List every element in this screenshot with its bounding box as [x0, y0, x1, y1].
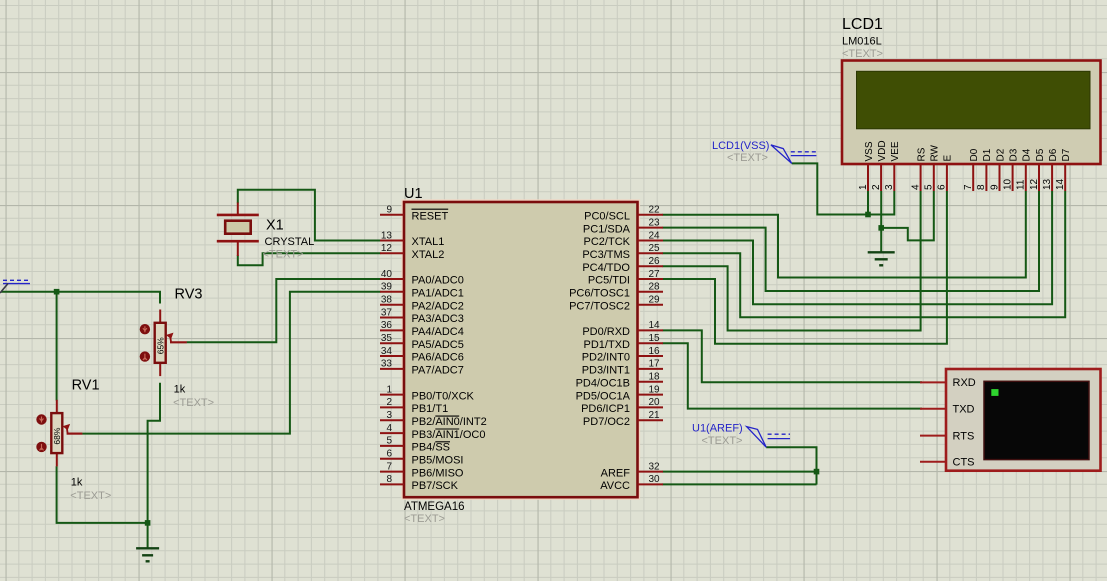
- node junction AREF: [814, 469, 820, 475]
- svg-text:PC1/SDA: PC1/SDA: [583, 223, 631, 235]
- svg-text:RV3: RV3: [175, 287, 203, 303]
- node junction ground rail: [145, 520, 151, 526]
- svg-text:3: 3: [386, 410, 392, 421]
- U1 left pin 2 (PB1/T1): [380, 397, 448, 415]
- svg-text:PD2/INT0: PD2/INT0: [582, 352, 630, 364]
- svg-text:65%: 65%: [156, 337, 166, 354]
- svg-text:PD0/RXD: PD0/RXD: [582, 326, 630, 338]
- svg-text:4: 4: [910, 184, 921, 190]
- LCD1 pin 5 (RW): [924, 144, 941, 191]
- svg-text:29: 29: [649, 295, 661, 306]
- svg-text:9: 9: [386, 205, 392, 216]
- svg-text:D6: D6: [1048, 148, 1059, 161]
- svg-text:PA7/ADC7: PA7/ADC7: [412, 365, 464, 377]
- svg-text:<TEXT>: <TEXT>: [727, 152, 768, 164]
- virtual terminal body: [946, 369, 1101, 471]
- wire LCD1(VSS) terminal to LCD VSS/VEE: [792, 163, 895, 214]
- svg-text:12: 12: [381, 243, 393, 254]
- LCD1 pin 14 (D7): [1055, 148, 1072, 191]
- U1 left pin 33 (PA7/ADC7): [380, 359, 464, 377]
- LCD1 pin 4 (RS): [910, 147, 927, 191]
- LCD1 pin 8 (D1): [976, 148, 993, 191]
- wire PD0/RXD to terminal RXD: [663, 330, 923, 382]
- U1 right pin 22 (PC0/SCL): [584, 205, 663, 223]
- LCD1 pin 9 (D2): [989, 148, 1006, 191]
- svg-text:11: 11: [1016, 179, 1027, 190]
- svg-text:RXD: RXD: [953, 377, 976, 389]
- svg-text:TXD: TXD: [953, 404, 975, 416]
- wire U1 AVCC pin 30: [663, 483, 817, 485]
- svg-text:PD4/OC1B: PD4/OC1B: [576, 377, 630, 389]
- svg-text:28: 28: [649, 282, 661, 293]
- svg-text:38: 38: [381, 295, 393, 306]
- svg-text:34: 34: [381, 346, 393, 357]
- svg-text:13: 13: [1042, 178, 1053, 190]
- crystal X1 pin stubs: [237, 203, 239, 215]
- U1 left pin 38 (PA2/ADC2): [380, 295, 464, 313]
- U1 left pin 12 (XTAL2): [380, 243, 444, 261]
- svg-text:<TEXT>: <TEXT>: [263, 249, 304, 261]
- svg-text:PB0/T0/XCK: PB0/T0/XCK: [412, 390, 475, 402]
- svg-text:68%: 68%: [52, 427, 62, 444]
- net label U1(AREF): [692, 423, 790, 448]
- svg-text:15: 15: [649, 333, 661, 344]
- U1 left pin 4 (PB3/AIN1/OC0): [380, 423, 485, 441]
- svg-text:RW: RW: [930, 144, 941, 161]
- wire jog LCD VDD to RW: [881, 191, 934, 240]
- wire RV3 bottom to ground rail: [148, 383, 160, 549]
- svg-text:26: 26: [649, 256, 661, 267]
- svg-text:12: 12: [1029, 178, 1040, 190]
- U1 left pin 35 (PA5/ADC5): [380, 333, 464, 351]
- wire PD1/TXD to terminal TXD: [663, 343, 923, 408]
- U1 right pin 16 (PD2/INT0): [582, 346, 663, 364]
- svg-text:27: 27: [649, 269, 661, 280]
- wire LCD pin1 VSS drop: [867, 191, 869, 215]
- potentiometer RV3 wiper arrow: [170, 341, 187, 343]
- svg-text:X1: X1: [266, 218, 284, 234]
- svg-text:<TEXT>: <TEXT>: [70, 490, 111, 502]
- svg-text:PA1/ADC1: PA1/ADC1: [412, 288, 464, 300]
- svg-text:XTAL1: XTAL1: [412, 236, 445, 248]
- svg-text:LM016L: LM016L: [842, 36, 882, 48]
- svg-text:D1: D1: [982, 148, 993, 161]
- svg-text:PD3/INT1: PD3/INT1: [582, 365, 630, 377]
- wire PC1 to LCD D5: [663, 191, 1040, 291]
- svg-text:<TEXT>: <TEXT>: [702, 435, 743, 447]
- U1 right pin 19 (PD5/OC1A): [576, 384, 663, 402]
- wire U1 AREF pin 32: [663, 471, 817, 473]
- wire LCD pin3 VEE drop: [893, 191, 895, 216]
- svg-text:PC4/TDO: PC4/TDO: [582, 262, 630, 274]
- svg-text:1: 1: [858, 184, 869, 190]
- LCD1 pin 6 (E): [937, 155, 954, 192]
- potentiometer RV1 wiper arrow: [67, 433, 83, 435]
- U1 right pin 26 (PC4/TDO): [582, 256, 663, 274]
- svg-text:8: 8: [386, 474, 392, 485]
- U1 right pin 15 (PD1/TXD): [584, 333, 663, 351]
- svg-text:XTAL2: XTAL2: [412, 249, 445, 261]
- svg-text:<TEXT>: <TEXT>: [842, 48, 883, 60]
- potentiometer RV3 pin stubs: [159, 310, 161, 323]
- svg-text:22: 22: [649, 205, 661, 216]
- U1 right pin 23 (PC1/SDA): [583, 217, 663, 235]
- svg-text:5: 5: [386, 436, 392, 447]
- U1 left pin 5 (PB4/SS): [380, 436, 450, 454]
- svg-text:LCD1: LCD1: [842, 16, 883, 33]
- svg-text:PB1/T1: PB1/T1: [412, 403, 449, 415]
- potentiometer RV1 pin stubs: [56, 400, 58, 413]
- svg-text:37: 37: [381, 307, 393, 318]
- svg-text:D7: D7: [1061, 148, 1072, 161]
- svg-text:19: 19: [649, 384, 661, 395]
- svg-text:LCD1(VSS): LCD1(VSS): [712, 140, 769, 152]
- svg-text:36: 36: [381, 320, 393, 331]
- svg-text:D2: D2: [995, 148, 1006, 161]
- power terminal (left edge): [0, 280, 30, 293]
- terminal pin RXD: [920, 377, 976, 389]
- LCD1 pin 7 (D0): [963, 148, 980, 191]
- wire PC2 to LCD D6: [663, 191, 1053, 304]
- svg-text:9: 9: [989, 184, 1000, 190]
- terminal pin TXD: [920, 404, 975, 416]
- potentiometer RV1 body: [51, 413, 62, 453]
- svg-text:RESET: RESET: [412, 211, 449, 223]
- svg-text:D3: D3: [1008, 148, 1019, 161]
- LCD1 pin 11 (D4): [1016, 148, 1033, 191]
- wire LCD pin2 VDD to ground: [880, 191, 882, 252]
- wire +V rail from power terminal to RV3 top: [1, 292, 160, 304]
- svg-text:PC6/TOSC1: PC6/TOSC1: [569, 288, 630, 300]
- terminal pin CTS: [920, 457, 975, 469]
- U1 left pin 40 (PA0/ADC0): [380, 269, 464, 287]
- svg-text:PC3/TMS: PC3/TMS: [582, 249, 630, 261]
- U1 right pin 32 (AREF): [601, 461, 663, 479]
- U1 right pin 17 (PD3/INT1): [582, 359, 663, 377]
- U1 left pin 7 (PB6/MISO): [380, 461, 464, 479]
- svg-text:E: E: [943, 155, 954, 162]
- svg-text:<TEXT>: <TEXT>: [173, 397, 214, 409]
- U1 right pin 24 (PC2/TCK): [584, 230, 663, 248]
- svg-text:16: 16: [649, 346, 661, 357]
- U1 right pin 28 (PC6/TOSC1): [569, 282, 663, 300]
- LCD1 pin 10 (D3): [1002, 148, 1019, 191]
- svg-text:D4: D4: [1022, 148, 1033, 161]
- svg-text:D5: D5: [1035, 148, 1046, 161]
- svg-text:RTS: RTS: [953, 430, 975, 442]
- svg-text:40: 40: [381, 269, 393, 280]
- svg-text:2: 2: [386, 397, 392, 408]
- svg-text:PA4/ADC4: PA4/ADC4: [412, 326, 464, 338]
- U1 left pin 3 (PB2/AIN0/INT2): [380, 410, 487, 428]
- svg-text:33: 33: [381, 359, 393, 370]
- svg-text:30: 30: [649, 474, 661, 485]
- svg-text:14: 14: [649, 320, 661, 331]
- U1 right pin 18 (PD4/OC1B): [576, 372, 663, 390]
- svg-text:8: 8: [976, 184, 987, 190]
- svg-text:7: 7: [386, 461, 392, 472]
- wire U1(AREF) terminal to AREF/AVCC: [766, 447, 816, 484]
- svg-text:2: 2: [871, 184, 882, 190]
- node junction +V rail / RV1 branch: [54, 289, 60, 295]
- svg-text:PA5/ADC5: PA5/ADC5: [412, 339, 464, 351]
- LCD1 pin 3 (VEE): [884, 141, 901, 191]
- svg-text:5: 5: [924, 184, 935, 190]
- U1 left pin 39 (PA1/ADC1): [380, 282, 464, 300]
- svg-text:4: 4: [386, 423, 392, 434]
- svg-text:VDD: VDD: [877, 140, 888, 161]
- svg-text:PC2/TCK: PC2/TCK: [584, 236, 631, 248]
- potentiometer RV1 terminal dots: [36, 414, 46, 424]
- U1 right pin 27 (PC5/TDI): [588, 269, 663, 287]
- ground near LCD: [868, 252, 895, 265]
- svg-text:U1: U1: [404, 186, 423, 202]
- node junction LCD VSS: [865, 212, 871, 218]
- U1 left pin 8 (PB7/SCK): [380, 474, 459, 492]
- svg-text:24: 24: [649, 230, 661, 241]
- svg-text:21: 21: [649, 410, 661, 421]
- svg-text:U1(AREF): U1(AREF): [692, 423, 743, 435]
- U1 right pin 14 (PD0/RXD): [582, 320, 663, 338]
- svg-text:7: 7: [963, 184, 974, 190]
- U1 left pin 36 (PA4/ADC4): [380, 320, 464, 338]
- svg-text:1k: 1k: [71, 477, 83, 489]
- potentiometer RV3 body: [155, 323, 166, 363]
- wire PC4 to LCD RS: [663, 191, 921, 331]
- svg-text:18: 18: [649, 372, 661, 383]
- svg-text:<TEXT>: <TEXT>: [404, 513, 445, 525]
- LCD1 pin 1 (VSS): [858, 141, 875, 191]
- svg-text:PA2/ADC2: PA2/ADC2: [412, 300, 464, 312]
- U1 right pin 20 (PD6/ICP1): [581, 397, 663, 415]
- svg-text:10: 10: [1002, 178, 1013, 190]
- LCD1 pin 2 (VDD): [871, 140, 888, 191]
- U1 right pin 29 (PC7/TOSC2): [569, 295, 663, 313]
- svg-text:35: 35: [381, 333, 393, 344]
- svg-text:PB3/AIN1/OC0: PB3/AIN1/OC0: [412, 429, 486, 441]
- IC U1 ATMEGA16 body: [402, 200, 639, 499]
- svg-text:D0: D0: [969, 148, 980, 161]
- U1 right pin 25 (PC3/TMS): [582, 243, 663, 261]
- svg-text:6: 6: [937, 184, 948, 190]
- svg-text:PC0/SCL: PC0/SCL: [584, 211, 630, 223]
- ground bottom left: [136, 548, 159, 561]
- svg-text:PD5/OC1A: PD5/OC1A: [576, 390, 631, 402]
- wire PC3 to LCD D7: [663, 191, 1066, 317]
- wire RV1 bottom to ground rail: [57, 466, 148, 523]
- svg-text:PD1/TXD: PD1/TXD: [584, 339, 631, 351]
- svg-text:17: 17: [649, 359, 661, 370]
- U1 left pin 37 (PA3/ADC3): [380, 307, 464, 325]
- U1 right pin 21 (PD7/OC2): [583, 410, 663, 428]
- node junction LCD VDD/RW net: [878, 225, 884, 231]
- svg-text:PB2/AIN0/INT2: PB2/AIN0/INT2: [412, 416, 487, 428]
- svg-text:AVCC: AVCC: [600, 480, 630, 492]
- wire RV3 wiper to U1 PA0 pin 40: [187, 279, 381, 342]
- svg-text:25: 25: [649, 243, 661, 254]
- svg-text:PA0/ADC0: PA0/ADC0: [412, 275, 464, 287]
- LCD1 pin 13 (D6): [1042, 148, 1059, 191]
- U1 right pin 30 (AVCC): [600, 474, 663, 492]
- terminal pin RTS: [920, 430, 974, 442]
- wire +V rail down to RV1 top: [56, 292, 58, 401]
- svg-text:RS: RS: [916, 147, 927, 161]
- svg-text:ATMEGA16: ATMEGA16: [404, 501, 465, 513]
- U1 left pin 9 (RESET): [380, 205, 448, 223]
- svg-text:PB6/MISO: PB6/MISO: [412, 467, 464, 479]
- svg-text:PA3/ADC3: PA3/ADC3: [412, 313, 464, 325]
- wire PC0 to LCD D4: [663, 191, 1026, 278]
- svg-text:3: 3: [884, 184, 895, 190]
- U1 left pin 1 (PB0/T0/XCK): [380, 384, 475, 402]
- wire crystal top to U1 XTAL1 pin 13: [238, 190, 381, 241]
- svg-text:39: 39: [381, 282, 393, 293]
- svg-text:PA6/ADC6: PA6/ADC6: [412, 352, 464, 364]
- U1 left pin 6 (PB5/MOSI): [380, 449, 463, 467]
- svg-text:VEE: VEE: [890, 141, 901, 161]
- svg-text:VSS: VSS: [864, 141, 875, 161]
- U1 left pin 34 (PA6/ADC6): [380, 346, 464, 364]
- LCD display LCD1 body: [842, 61, 1101, 165]
- svg-text:PD6/ICP1: PD6/ICP1: [581, 403, 630, 415]
- svg-text:RV1: RV1: [72, 378, 100, 394]
- crystal X1: [217, 215, 259, 241]
- svg-text:1: 1: [386, 384, 392, 395]
- svg-text:PC5/TDI: PC5/TDI: [588, 275, 630, 287]
- U1 left pin 13 (XTAL1): [380, 230, 444, 248]
- svg-text:32: 32: [649, 461, 661, 472]
- net label LCD1(VSS): [712, 140, 816, 164]
- svg-text:PD7/OC2: PD7/OC2: [583, 416, 630, 428]
- svg-text:PB4/SS: PB4/SS: [412, 442, 451, 454]
- svg-text:23: 23: [649, 217, 661, 228]
- svg-text:20: 20: [649, 397, 661, 408]
- wire crystal bottom to U1 XTAL2 pin 12: [238, 253, 381, 265]
- svg-text:CTS: CTS: [953, 457, 975, 469]
- svg-text:14: 14: [1055, 178, 1066, 190]
- svg-text:PC7/TOSC2: PC7/TOSC2: [569, 300, 630, 312]
- svg-text:6: 6: [386, 449, 392, 460]
- wire PC5 to LCD E: [663, 191, 947, 344]
- svg-text:1k: 1k: [174, 384, 186, 396]
- svg-text:PB5/MOSI: PB5/MOSI: [412, 455, 464, 467]
- LCD1 pin 12 (D5): [1029, 148, 1046, 191]
- wire RV1 wiper to U1 PA1 pin 39: [82, 292, 380, 434]
- svg-text:CRYSTAL: CRYSTAL: [265, 236, 315, 248]
- potentiometer RV3 terminal dots: [140, 324, 150, 334]
- svg-text:13: 13: [381, 230, 393, 241]
- svg-text:AREF: AREF: [601, 467, 631, 479]
- svg-text:PB7/SCK: PB7/SCK: [412, 480, 459, 492]
